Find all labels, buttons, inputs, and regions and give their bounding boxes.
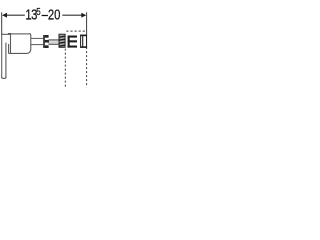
svg-text:135–20: 135–20	[25, 6, 60, 23]
